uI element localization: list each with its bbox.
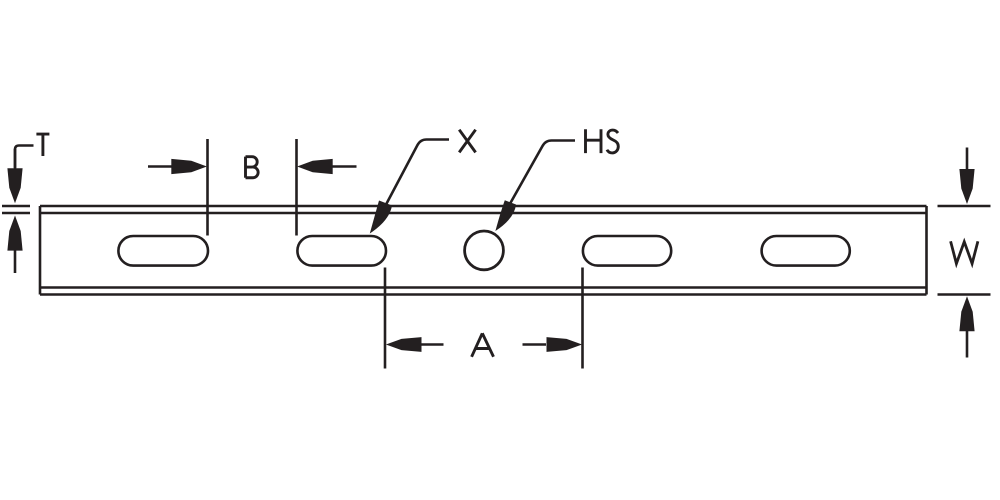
T lower arrow tail	[14, 249, 17, 273]
hole HS	[465, 231, 504, 270]
T arrow up	[7, 216, 22, 251]
strut channel bar outline	[40, 206, 927, 295]
T extension line upper	[2, 205, 30, 208]
W top arrow tail	[966, 148, 969, 171]
W bottom arrow tail	[966, 331, 969, 358]
A extension line right	[581, 268, 584, 369]
B arrow left (right side)	[297, 159, 333, 174]
label X	[459, 130, 475, 153]
B left arrow tail	[148, 165, 173, 168]
HS leader line	[510, 141, 575, 204]
slot 2	[297, 236, 386, 266]
X leader line	[385, 140, 449, 207]
B extension line right	[295, 139, 298, 236]
B arrow right (left side)	[171, 159, 207, 174]
A extension line left	[384, 268, 387, 369]
T extension line lower	[2, 212, 30, 215]
slot 3	[583, 236, 671, 266]
label H of HS	[586, 129, 602, 153]
label S of HS	[607, 130, 618, 153]
A left arrow tail	[421, 343, 444, 346]
W arrow up	[959, 296, 974, 331]
W extension line bottom	[938, 293, 991, 296]
label A	[472, 333, 494, 357]
A arrow right	[547, 337, 583, 352]
X leader arrowhead	[370, 201, 392, 234]
B right arrow tail	[331, 165, 357, 168]
B extension line left	[206, 139, 209, 236]
T arrow down	[7, 168, 22, 203]
W arrow down	[959, 169, 974, 204]
label W	[951, 241, 978, 263]
W extension line top	[938, 205, 991, 208]
HS leader arrowhead	[495, 200, 516, 231]
slot 1	[118, 236, 208, 266]
A arrow left	[386, 337, 422, 352]
T leader elbow	[15, 146, 34, 169]
bar inner edge line bottom	[40, 286, 927, 289]
A right arrow tail	[523, 343, 547, 346]
slot 4	[762, 236, 850, 266]
label B	[246, 157, 259, 178]
label T	[36, 134, 49, 156]
T upper arrow tail	[14, 149, 17, 170]
bar inner edge line top	[40, 212, 927, 215]
